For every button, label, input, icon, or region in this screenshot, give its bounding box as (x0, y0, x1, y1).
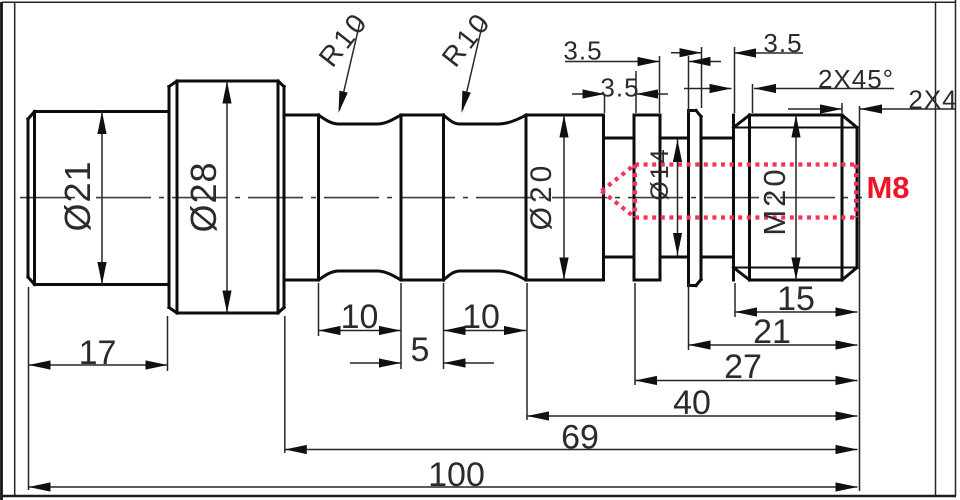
threaded end M20 outline (734, 115, 858, 280)
dimension Ø20 (563, 115, 565, 280)
dimension 5 land (350, 362, 401, 364)
dimension M20 (795, 115, 797, 280)
svg-text:3.5: 3.5 (763, 28, 802, 58)
svg-text:17: 17 (79, 334, 117, 372)
svg-text:M8: M8 (866, 170, 909, 205)
extension lines top (604, 96, 606, 113)
dimension 21 (689, 344, 858, 346)
shaft section 2 Ø28 outline (169, 81, 284, 313)
centerline shaft axis (20, 197, 862, 199)
border frame right inner (935, 2, 937, 496)
svg-text:Ø28: Ø28 (183, 161, 224, 232)
svg-text:3.5: 3.5 (600, 73, 639, 103)
groove 1 top (319, 115, 402, 124)
dimension 3.5 ring (572, 93, 605, 95)
groove 2 bottom (444, 271, 527, 280)
svg-text:69: 69 (561, 419, 599, 457)
dimension 17 (29, 364, 168, 366)
svg-text:M20: M20 (757, 166, 792, 235)
svg-text:Ø14: Ø14 (646, 147, 674, 200)
dimension Ø14 (677, 140, 679, 256)
neck 3 Ø14 (701, 138, 734, 257)
dimension 2X4 chamfer right (788, 108, 842, 110)
dimension 10 groove1 (319, 330, 402, 332)
extension lines bottom (28, 287, 30, 490)
dimension 40 (527, 415, 858, 417)
neck 2 Ø14 (660, 138, 689, 257)
Ø20 right shoulder face (602, 115, 605, 280)
dimension Ø28 (226, 81, 228, 313)
svg-text:2X4: 2X4 (908, 85, 957, 115)
border frame top (2, 1, 956, 3)
shaft section 3 Ø20 grooved outline (284, 115, 604, 280)
svg-text:3.5: 3.5 (563, 36, 602, 66)
svg-text:Ø21: Ø21 (57, 160, 98, 231)
disc washer collar (689, 111, 702, 286)
dimension 3.5 neck2 (565, 61, 660, 63)
dimension 3.5 neck3 (734, 52, 803, 54)
dimension 69 (285, 449, 858, 451)
border frame bottom (1, 495, 956, 498)
dimension 2X45&#176; chamfer (684, 88, 732, 90)
dimension Ø21 (101, 112, 103, 285)
svg-text:40: 40 (673, 384, 711, 422)
leader R10 groove 1 (340, 22, 361, 110)
dimension 27 (635, 380, 858, 382)
ring Ø20 collar (634, 115, 660, 280)
svg-text:27: 27 (724, 348, 762, 386)
svg-text:100: 100 (428, 456, 485, 494)
groove 1 bottom (319, 271, 402, 280)
svg-text:5: 5 (411, 331, 430, 369)
svg-text:21: 21 (753, 313, 791, 351)
border frame right outer (955, 0, 957, 496)
dimension disc width arrow (671, 52, 702, 54)
M8 tapped hole hidden outline (red dotted) (602, 165, 857, 218)
svg-text:2X45°: 2X45° (818, 64, 894, 94)
dimension 15 (735, 311, 858, 313)
border frame left outer (0, 2, 3, 500)
border frame left inner (14, 2, 16, 496)
svg-text:10: 10 (462, 298, 500, 336)
shaft section 1 Ø21 outline (28, 112, 169, 285)
dimension 100 (29, 486, 858, 488)
groove 2 top (444, 115, 527, 124)
dimension 10 groove2 (444, 330, 527, 332)
svg-text:10: 10 (341, 298, 379, 336)
neck 1 Ø14 (604, 138, 635, 257)
thread root lines (734, 128, 858, 268)
svg-text:Ø20: Ø20 (525, 162, 558, 231)
groove tangent verticals (319, 115, 527, 280)
leader R10 groove 2 (463, 22, 484, 110)
